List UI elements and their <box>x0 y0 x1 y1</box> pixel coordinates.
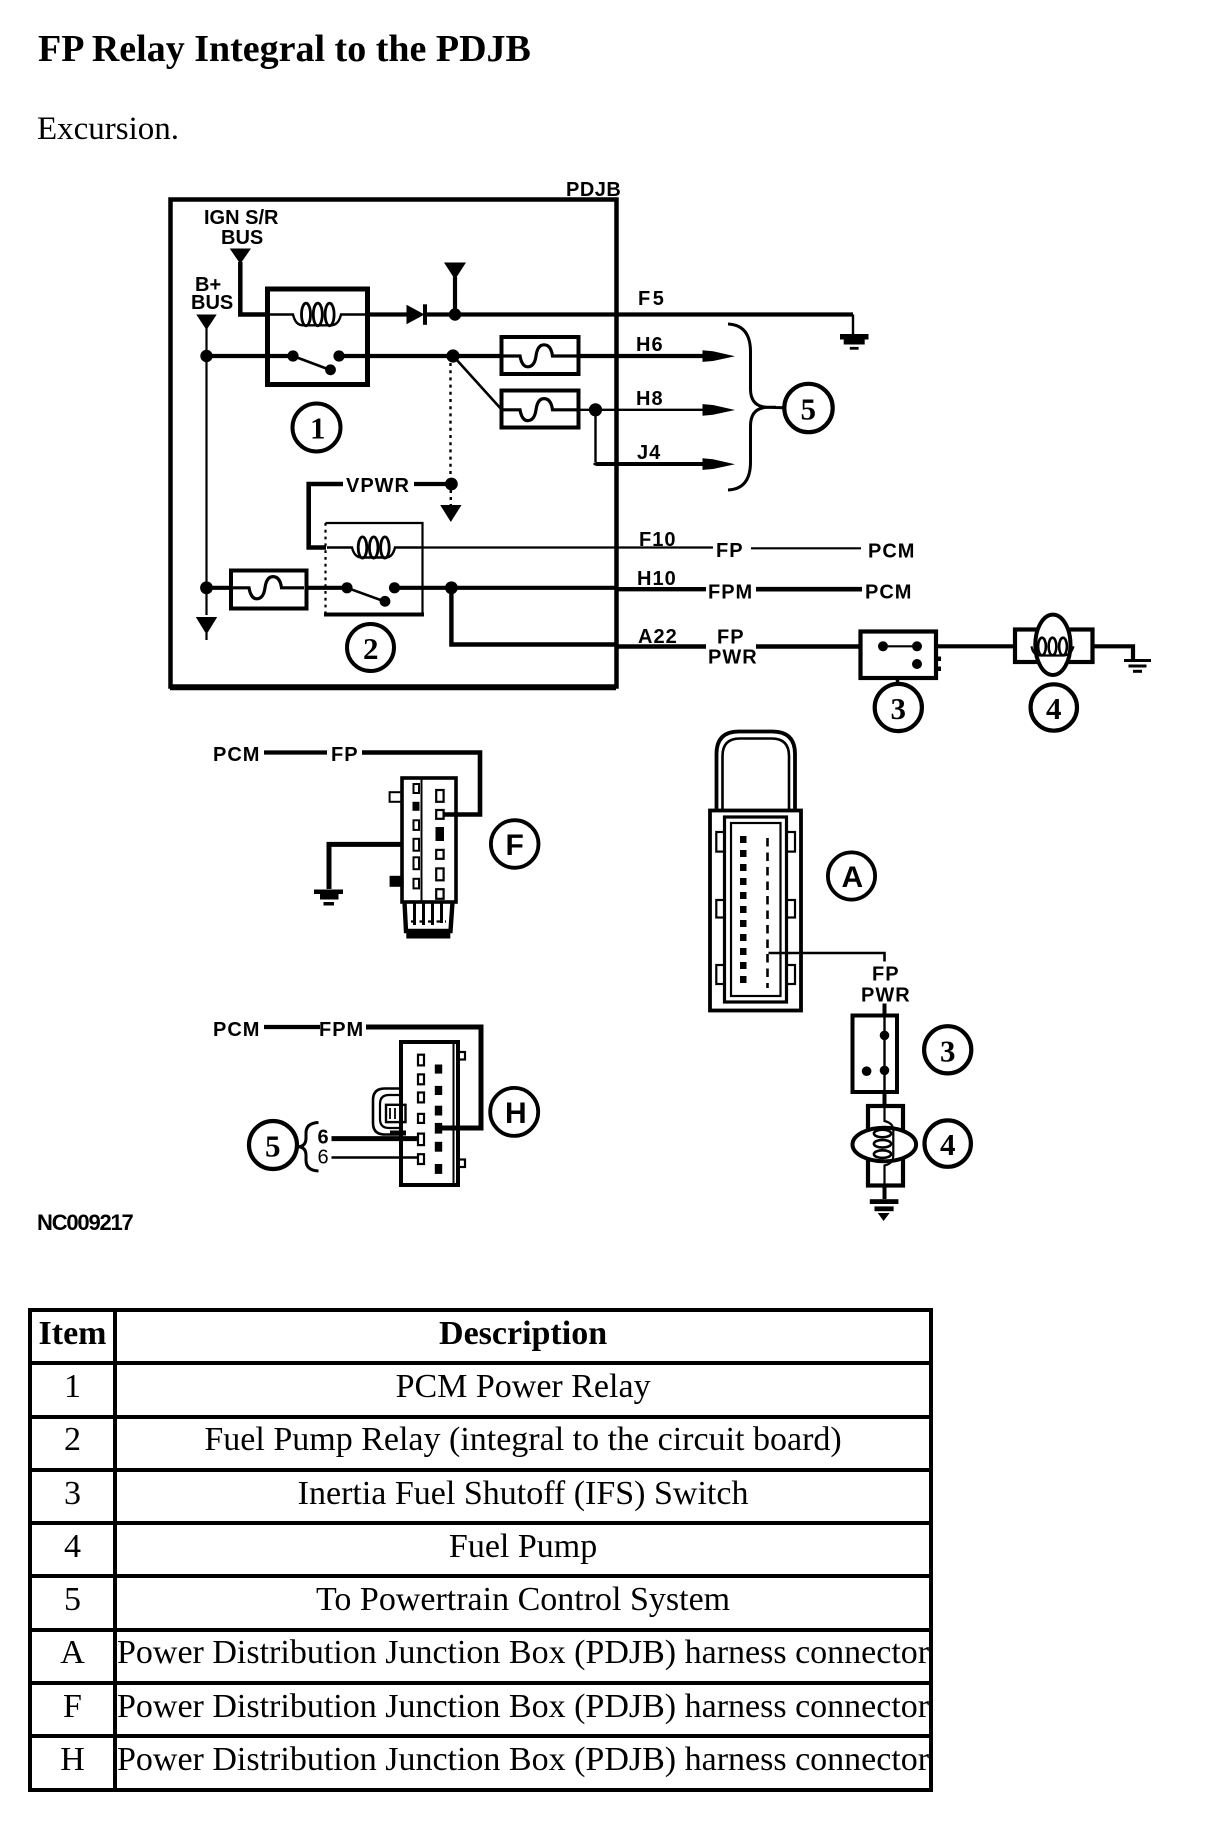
svg-text:3: 3 <box>891 691 907 726</box>
svg-text:FP: FP <box>716 540 744 562</box>
arrow J4 <box>703 458 736 470</box>
connector A body <box>710 811 801 1011</box>
wire pin 6 bottom to connector H <box>332 1156 419 1159</box>
callout circle 4 (pump M2) <box>925 1120 971 1166</box>
connector F bottom comb <box>405 902 453 939</box>
wire diagonal to fuse F2 <box>455 358 502 410</box>
svg-text:H6: H6 <box>636 334 664 356</box>
wire IFS S1 internal <box>883 645 917 647</box>
svg-text:PWR: PWR <box>861 985 911 1007</box>
wire fuse F3 to relay K2 switch <box>306 586 347 590</box>
callout circle 2 <box>347 624 394 671</box>
svg-text:H8: H8 <box>636 388 664 410</box>
wire diode to F5 line <box>425 312 854 316</box>
IFS switch S2 contacts <box>862 1031 890 1076</box>
fuse F3 <box>231 571 307 609</box>
node B+ BUS <box>191 274 233 330</box>
junction H8/J4 branch <box>589 403 602 416</box>
fuse F2 <box>502 391 579 428</box>
IFS switch S1 contacts <box>878 641 941 671</box>
connector F left tabs <box>390 792 404 887</box>
IFS switch S2 internal wire <box>883 1016 885 1093</box>
svg-text:VPWR: VPWR <box>346 475 410 497</box>
relay K2 coil <box>327 537 421 558</box>
wire relay K1 output <box>339 354 453 358</box>
wire H10 out of PDJB <box>615 587 706 591</box>
svg-text:FPM: FPM <box>708 582 753 604</box>
relay K1 box <box>268 289 368 385</box>
wire pin 6 top to connector H <box>332 1136 419 1141</box>
parts table <box>28 1308 933 1792</box>
PDJB enclosure box <box>171 200 617 687</box>
wire A22 branch <box>451 588 615 645</box>
svg-text:F: F <box>506 829 524 862</box>
wire FP PWR to IFS switch <box>756 644 860 648</box>
wire B+ BUS vertical feed <box>205 328 207 615</box>
connector F pins right column <box>436 790 445 899</box>
callout circle A <box>828 852 875 899</box>
wire relay K1 switch feed <box>207 354 294 358</box>
node IGN S/R BUS <box>204 207 279 264</box>
wire pump M2 to ground <box>883 1185 887 1199</box>
svg-text:4: 4 <box>940 1127 956 1162</box>
IFS switch S2 box <box>853 1016 898 1093</box>
wire dotted VPWR sense <box>449 363 451 478</box>
svg-text:FP: FP <box>331 744 359 766</box>
wire K1 coil to diode to F5 <box>366 312 407 316</box>
relay K1 contacts and blade <box>287 350 344 375</box>
wire connector F ground <box>329 844 402 889</box>
callout circle 5 (connector H) <box>249 1121 297 1169</box>
wire F5 down to ground <box>852 315 854 336</box>
wire VPWR left leg to relay K2 coil <box>309 484 343 548</box>
arrow H6 <box>703 350 736 362</box>
wire pump to ground <box>1093 646 1133 660</box>
junction K1 output / fuse branch <box>446 349 459 362</box>
connector A pin line (dashed) <box>766 838 769 988</box>
connector H body <box>401 1042 465 1185</box>
svg-text:PCM: PCM <box>213 744 260 766</box>
svg-text:FP: FP <box>872 964 900 986</box>
arrow VPWR continuation (down triangle) <box>440 490 461 522</box>
wire B+ to fuse F3 <box>207 586 233 590</box>
svg-text:F5: F5 <box>638 288 666 310</box>
wire PCM to FPM <box>264 1025 320 1029</box>
svg-text:4: 4 <box>1046 691 1062 726</box>
connector F pins left column <box>413 784 420 888</box>
subtitle <box>37 111 179 148</box>
svg-text:NC009217: NC009217 <box>37 1210 134 1235</box>
stub IFS to callout 3 <box>896 679 900 686</box>
svg-text:H: H <box>505 1097 527 1130</box>
svg-text:PCM: PCM <box>865 582 912 604</box>
connector A pin strip <box>740 836 747 983</box>
wire J4 branch <box>594 410 713 464</box>
svg-text:PWR: PWR <box>708 647 758 669</box>
svg-text:3: 3 <box>940 1033 956 1068</box>
svg-text:2: 2 <box>363 631 379 666</box>
wire relay K2 output <box>395 586 616 590</box>
relay K2 box <box>324 523 424 615</box>
callout circle 1 <box>293 404 341 452</box>
callout circle F <box>491 820 539 868</box>
ground G2 (fuel pump M1) <box>1124 661 1151 672</box>
svg-text:H10: H10 <box>637 568 677 590</box>
wire PCM to FP <box>264 750 327 754</box>
svg-text:PCM: PCM <box>213 1019 260 1041</box>
svg-text:IGN S/R: IGN S/R <box>204 207 279 229</box>
IFS switch S1 box <box>861 632 937 679</box>
callout circle 4 <box>1031 684 1077 730</box>
connector H pins left column <box>418 1055 424 1164</box>
wire FP to PCM (thin) <box>751 547 861 549</box>
wire IGN S/R BUS to relay K1 coil <box>240 262 268 315</box>
fuel pump M2 <box>853 1106 917 1186</box>
wire FPM to PCM (thick) <box>756 587 862 592</box>
svg-text:A: A <box>842 861 864 894</box>
wire IFS S2 to fuel pump M2 <box>883 1092 887 1107</box>
wire K2 coil to F10 <box>421 546 713 548</box>
wire IFS to fuel pump <box>936 644 1016 648</box>
svg-text:6: 6 <box>318 1127 329 1149</box>
svg-text:FP: FP <box>717 627 745 649</box>
callout circle 5 <box>784 384 832 432</box>
ground G3 (connector F) <box>314 890 343 906</box>
wire FP to connector F pin <box>362 753 480 815</box>
wire FPM to connector H pin <box>366 1027 481 1128</box>
fuel pump M1 <box>1015 615 1093 675</box>
relay K2 contacts and blade <box>341 582 400 606</box>
svg-text:F10: F10 <box>639 529 676 551</box>
callout circle 3 <box>875 684 922 731</box>
connector A side tabs <box>716 832 795 984</box>
junction B+/K1 <box>200 350 212 362</box>
power feed triangle above junction <box>444 263 466 315</box>
svg-text:A22: A22 <box>638 626 678 648</box>
connector H pins right column <box>435 1065 442 1174</box>
svg-text:BUS: BUS <box>191 292 233 314</box>
junction at power triangle <box>449 308 461 320</box>
svg-text:BUS: BUS <box>221 227 263 249</box>
svg-text:6: 6 <box>318 1147 329 1169</box>
svg-text:1: 1 <box>310 411 326 446</box>
relay K1 coil <box>270 303 365 326</box>
brace to powertrain control system <box>728 324 784 490</box>
wire VPWR right leg <box>414 482 451 486</box>
wire fuse F1 to H6 arrow <box>578 354 712 358</box>
FP PWR net label (A22) <box>708 627 758 669</box>
arrow H8 <box>703 404 736 416</box>
junction K2 output <box>445 581 458 594</box>
ground G1 (F5) <box>840 334 869 350</box>
wire junction to fuse F1 <box>453 354 502 358</box>
callout circle H <box>490 1088 538 1136</box>
svg-text:PCM: PCM <box>868 541 915 563</box>
svg-text:J4: J4 <box>637 442 661 464</box>
FP PWR net label (connector A) <box>861 964 911 1007</box>
svg-text:FPM: FPM <box>319 1019 364 1041</box>
callout circle 3 (IFS S2) <box>924 1026 971 1073</box>
junction B+/F3 <box>200 581 213 594</box>
connector H side latch <box>373 1089 406 1136</box>
diode CR1 <box>407 304 426 325</box>
wire A22 out of PDJB <box>615 644 706 648</box>
connector F body <box>402 778 456 902</box>
wire connector A to FP PWR <box>769 953 885 962</box>
wire FP PWR to IFS S2 <box>883 1004 887 1016</box>
title <box>38 30 531 68</box>
wire fuse F2 to H8 arrow <box>578 409 712 411</box>
connector A lock arch <box>717 732 796 811</box>
brace connector H pins <box>298 1123 319 1172</box>
svg-text:5: 5 <box>265 1129 281 1164</box>
svg-text:PDJB: PDJB <box>566 179 621 201</box>
fuse F1 <box>502 337 579 374</box>
ground G4 (pump M2) <box>870 1199 899 1221</box>
svg-text:5: 5 <box>801 392 817 427</box>
arrow B+ bus continuation (down) <box>196 617 217 640</box>
junction VPWR <box>445 478 458 491</box>
